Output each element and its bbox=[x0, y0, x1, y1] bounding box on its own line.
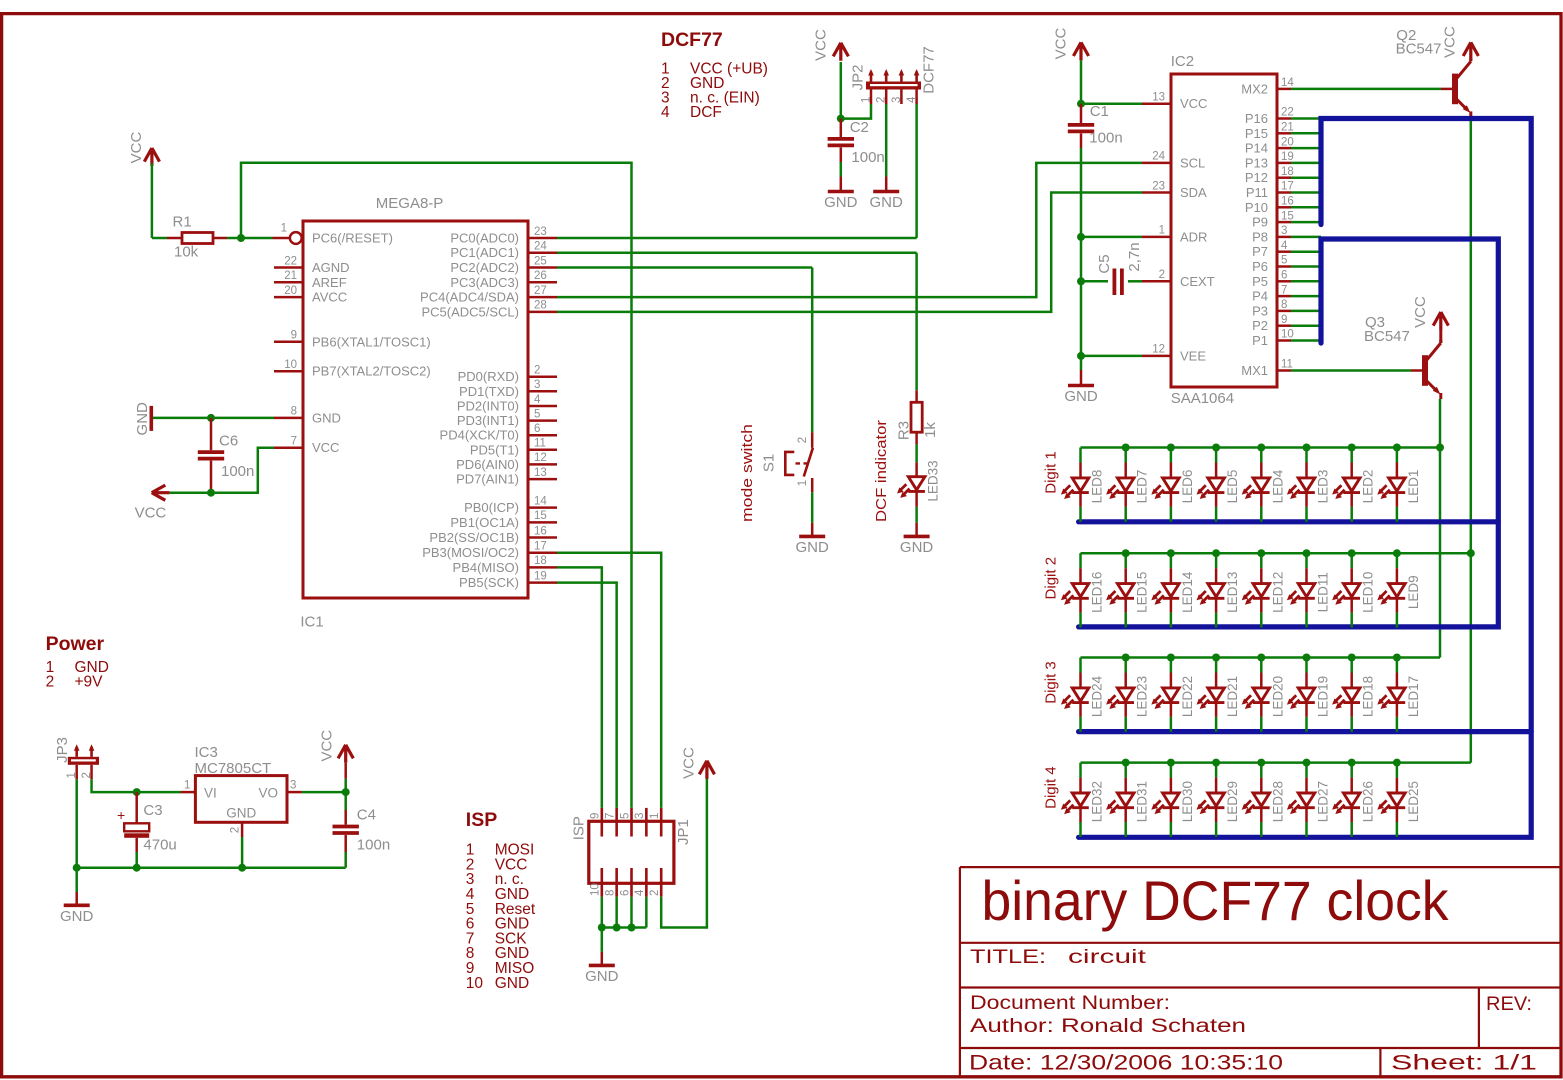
svg-text:LED6: LED6 bbox=[1180, 470, 1195, 504]
IC1 pin 2 (PD0(RXD)) bbox=[528, 375, 557, 378]
svg-text:2: 2 bbox=[649, 890, 661, 896]
LED LED3 bbox=[1287, 448, 1331, 522]
LED LED29 bbox=[1197, 763, 1241, 837]
svg-text:Sheet: 1/1: Sheet: 1/1 bbox=[1391, 1052, 1537, 1075]
svg-text:8: 8 bbox=[1281, 299, 1287, 311]
wire to IC2 pin13 VCC bbox=[1081, 102, 1142, 105]
svg-text:VCC: VCC bbox=[1180, 96, 1207, 111]
junction C6 top bbox=[207, 414, 215, 422]
svg-text:+9V: +9V bbox=[75, 674, 104, 691]
svg-text:CEXT: CEXT bbox=[1180, 274, 1215, 289]
svg-text:20: 20 bbox=[1281, 136, 1294, 148]
IC2 pin 23 (SDA) bbox=[1142, 191, 1171, 194]
svg-text:GND: GND bbox=[134, 402, 151, 436]
svg-text:LED21: LED21 bbox=[1225, 676, 1240, 717]
VCC power symbol at JP1 bbox=[699, 761, 714, 779]
svg-text:AVCC: AVCC bbox=[312, 290, 347, 305]
svg-text:P12: P12 bbox=[1245, 170, 1268, 185]
svg-text:LED14: LED14 bbox=[1180, 571, 1195, 613]
svg-text:25: 25 bbox=[534, 255, 547, 267]
LED LED21 bbox=[1197, 658, 1241, 732]
svg-text:C4: C4 bbox=[357, 807, 376, 824]
IC2 pin 12 (VEE) bbox=[1142, 355, 1171, 358]
IC2 pin 8 (P3) bbox=[1277, 310, 1291, 313]
svg-text:10: 10 bbox=[466, 975, 484, 992]
svg-text:LED29: LED29 bbox=[1225, 781, 1240, 822]
svg-text:ADR: ADR bbox=[1180, 229, 1207, 244]
wire P4 to bus bbox=[1291, 295, 1321, 298]
svg-text:100n: 100n bbox=[1089, 130, 1122, 147]
svg-text:LED5: LED5 bbox=[1225, 470, 1240, 504]
svg-text:P6: P6 bbox=[1252, 259, 1268, 274]
svg-text:mode switch: mode switch bbox=[739, 424, 756, 522]
junction LED15 anode bbox=[1122, 549, 1130, 557]
junction LED25 anode bbox=[1393, 759, 1401, 767]
IC1 pin 5 (PD3(INT1)) bbox=[528, 419, 557, 422]
svg-text:4: 4 bbox=[661, 104, 670, 121]
svg-text:17: 17 bbox=[1281, 181, 1294, 193]
svg-text:21: 21 bbox=[284, 270, 297, 282]
svg-text:19: 19 bbox=[534, 570, 547, 582]
svg-text:12: 12 bbox=[534, 452, 547, 464]
wire PC5 to IC2 SDA bbox=[557, 193, 1142, 312]
wire VCC down to IC2 VCC bbox=[1080, 60, 1083, 103]
LED LED30 bbox=[1151, 763, 1195, 837]
svg-text:VI: VI bbox=[204, 786, 217, 801]
svg-text:LED18: LED18 bbox=[1361, 676, 1376, 717]
svg-text:2: 2 bbox=[81, 772, 93, 778]
junction rail pin8 bbox=[613, 924, 621, 932]
svg-text:2: 2 bbox=[797, 437, 809, 443]
svg-text:PC0(ADC0): PC0(ADC0) bbox=[450, 231, 519, 246]
wire GND to pin8 bbox=[153, 417, 274, 420]
svg-text:P2: P2 bbox=[1252, 318, 1268, 333]
switch S1 (mode switch) bbox=[761, 432, 813, 492]
wire down to S1 bbox=[811, 268, 814, 433]
svg-text:LED24: LED24 bbox=[1090, 675, 1105, 717]
svg-text:ISP: ISP bbox=[466, 809, 497, 831]
svg-text:PC2(ADC2): PC2(ADC2) bbox=[450, 260, 519, 275]
svg-text:17: 17 bbox=[534, 541, 547, 553]
svg-text:GND: GND bbox=[495, 975, 529, 992]
wire P2 to bus bbox=[1291, 324, 1321, 327]
svg-text:GND: GND bbox=[312, 410, 341, 425]
wire VCC to R1 bbox=[151, 163, 154, 238]
wire to VEE bbox=[1081, 355, 1142, 358]
svg-text:VCC: VCC bbox=[681, 747, 698, 779]
svg-text:C2: C2 bbox=[850, 119, 869, 136]
svg-text:VCC: VCC bbox=[1412, 296, 1429, 328]
bus from P16-P9 to digit2/digit4 cathodes bbox=[1079, 119, 1532, 838]
transistor Q2 BC547 bbox=[1441, 58, 1471, 118]
svg-text:1: 1 bbox=[797, 480, 809, 486]
svg-text:LED4: LED4 bbox=[1270, 469, 1285, 503]
LED LED16 bbox=[1061, 553, 1105, 627]
junction LED2 anode bbox=[1348, 444, 1356, 452]
wire JP1 pin8 to rail bbox=[615, 897, 618, 928]
svg-text:DCF77: DCF77 bbox=[921, 46, 938, 94]
wire to ADR bbox=[1081, 236, 1142, 239]
LED LED28 bbox=[1242, 763, 1286, 837]
svg-text:JP2: JP2 bbox=[850, 65, 867, 91]
svg-text:JP3: JP3 bbox=[54, 737, 71, 763]
svg-text:PD4(XCK/T0): PD4(XCK/T0) bbox=[440, 428, 519, 443]
LED LED22 bbox=[1151, 658, 1195, 732]
junction LED30 anode bbox=[1167, 759, 1175, 767]
junction LED5 anode bbox=[1212, 444, 1220, 452]
LED LED2 bbox=[1332, 448, 1376, 522]
svg-text:24: 24 bbox=[534, 241, 547, 253]
bus from P8-P1 to digit1/digit2 cathodes bbox=[1079, 239, 1499, 627]
svg-text:PD2(INT0): PD2(INT0) bbox=[457, 399, 519, 414]
wire rail to GND bbox=[601, 928, 604, 952]
svg-text:1: 1 bbox=[1159, 225, 1165, 237]
wire P6 to bus bbox=[1291, 265, 1321, 268]
svg-text:7: 7 bbox=[604, 813, 616, 819]
svg-text:5: 5 bbox=[619, 813, 631, 819]
IC2 pin 7 (P4) bbox=[1277, 295, 1291, 298]
JP2 pin 2 bbox=[885, 72, 888, 82]
svg-text:4: 4 bbox=[906, 96, 918, 103]
svg-text:GND: GND bbox=[1064, 388, 1098, 405]
wire P13 to bus bbox=[1291, 162, 1321, 165]
IC1 pin 17 (PB3(MOSI/OC2)) bbox=[528, 551, 557, 554]
svg-text:1: 1 bbox=[649, 813, 661, 819]
svg-text:16: 16 bbox=[1281, 196, 1294, 208]
wire P8 to bus bbox=[1291, 236, 1321, 239]
svg-text:5: 5 bbox=[534, 408, 540, 420]
svg-text:10: 10 bbox=[590, 883, 602, 896]
junction LED18 anode bbox=[1348, 654, 1356, 662]
svg-text:2: 2 bbox=[230, 827, 242, 833]
svg-text:SDA: SDA bbox=[1180, 185, 1207, 200]
svg-text:PD1(TXD): PD1(TXD) bbox=[459, 384, 519, 399]
svg-text:LED2: LED2 bbox=[1361, 470, 1376, 504]
IC1 pin 10 (PB7(XTAL2/TOSC2)) bbox=[274, 370, 303, 373]
junction C6 bottom bbox=[207, 489, 215, 497]
JP1 pin 9 bbox=[600, 808, 603, 837]
svg-text:15: 15 bbox=[534, 510, 547, 522]
svg-text:AGND: AGND bbox=[312, 260, 350, 275]
svg-text:AREF: AREF bbox=[312, 275, 347, 290]
svg-text:C1: C1 bbox=[1090, 103, 1109, 120]
junction IC3 GND bbox=[238, 864, 246, 872]
svg-text:3: 3 bbox=[290, 780, 296, 792]
svg-text:LED33: LED33 bbox=[926, 460, 941, 501]
VCC power symbol arrow left bbox=[152, 485, 170, 500]
junction C3 bottom bbox=[133, 864, 141, 872]
connector JP3 (power input) bbox=[54, 737, 99, 779]
wire Digit 2 anode rail bbox=[1081, 552, 1471, 555]
svg-text:18: 18 bbox=[534, 555, 547, 567]
wire C5 to CEXT bbox=[1128, 280, 1142, 283]
svg-text:P15: P15 bbox=[1245, 126, 1268, 141]
wire to C5 bbox=[1081, 280, 1108, 283]
IC1 pin 7 (VCC) bbox=[274, 446, 303, 449]
svg-text:23: 23 bbox=[534, 226, 547, 238]
svg-text:LED20: LED20 bbox=[1270, 676, 1285, 717]
IC2 pin 14 (MX2) bbox=[1277, 88, 1291, 91]
svg-text:LED12: LED12 bbox=[1270, 572, 1285, 613]
svg-text:LED8: LED8 bbox=[1090, 470, 1105, 504]
LED LED33 (DCF indicator) bbox=[897, 460, 941, 507]
svg-text:P16: P16 bbox=[1245, 111, 1268, 126]
wire power GND rail bbox=[77, 866, 346, 869]
svg-text:10: 10 bbox=[284, 359, 297, 371]
svg-text:2: 2 bbox=[876, 97, 888, 103]
IC2 pin 9 (P2) bbox=[1277, 324, 1291, 327]
IC1 pin 8 (GND) bbox=[274, 417, 303, 420]
title block bbox=[960, 867, 1561, 1077]
LED LED19 bbox=[1287, 658, 1331, 732]
LED LED11 bbox=[1287, 553, 1331, 627]
LED LED23 bbox=[1106, 658, 1150, 732]
svg-text:1k: 1k bbox=[922, 422, 939, 438]
wire JP2 pin2 to GND bbox=[885, 104, 888, 177]
wire PC2 to S1 bbox=[557, 266, 812, 269]
svg-text:Date: 12/30/2006 10:35:10: Date: 12/30/2006 10:35:10 bbox=[969, 1052, 1283, 1075]
LED LED9 bbox=[1377, 553, 1421, 627]
JP1 pin 10 bbox=[600, 868, 603, 897]
svg-text:PB1(OC1A): PB1(OC1A) bbox=[450, 515, 519, 530]
svg-text:22: 22 bbox=[284, 255, 297, 267]
wire JP1 pin4 to rail bbox=[645, 897, 648, 928]
capacitor C3 470u electrolytic bbox=[117, 792, 177, 854]
connector JP1 (ISP header) bbox=[571, 808, 693, 897]
svg-text:PB5(SCK): PB5(SCK) bbox=[459, 575, 519, 590]
svg-text:6: 6 bbox=[534, 423, 540, 435]
svg-text:GND: GND bbox=[900, 539, 934, 556]
svg-text:DCF77: DCF77 bbox=[661, 29, 723, 51]
svg-text:LED10: LED10 bbox=[1361, 572, 1376, 613]
svg-text:JP1: JP1 bbox=[675, 819, 692, 845]
junction LED1 anode bbox=[1393, 444, 1401, 452]
svg-text:SCL: SCL bbox=[1180, 155, 1205, 170]
svg-text:PD7(AIN1): PD7(AIN1) bbox=[456, 472, 519, 487]
svg-text:PB0(ICP): PB0(ICP) bbox=[464, 500, 519, 515]
junction LED28 anode bbox=[1257, 759, 1265, 767]
svg-text:C5: C5 bbox=[1096, 254, 1113, 273]
svg-text:PC4(ADC4/SDA): PC4(ADC4/SDA) bbox=[420, 290, 519, 305]
svg-text:SAA1064: SAA1064 bbox=[1171, 390, 1234, 407]
svg-text:PB7(XTAL2/TOSC2): PB7(XTAL2/TOSC2) bbox=[312, 364, 431, 379]
svg-text:Digit 1: Digit 1 bbox=[1043, 451, 1060, 494]
junction LED21 anode bbox=[1212, 654, 1220, 662]
IC2 pin 18 (P12) bbox=[1277, 176, 1291, 179]
wire P9 to bus bbox=[1291, 221, 1321, 224]
IC1 pin 26 (PC3(ADC3)) bbox=[528, 281, 557, 284]
svg-text:VCC: VCC bbox=[813, 29, 830, 61]
IC3 pin 3 VO bbox=[287, 791, 302, 794]
IC2 pin 20 (P14) bbox=[1277, 147, 1291, 150]
svg-text:10: 10 bbox=[1281, 329, 1294, 341]
svg-text:10k: 10k bbox=[174, 244, 199, 261]
ground symbol GND below S1 bbox=[799, 535, 825, 539]
svg-text:LED32: LED32 bbox=[1090, 781, 1105, 822]
IC1 pin 14 (PB0(ICP)) bbox=[528, 506, 557, 509]
LED LED24 bbox=[1061, 658, 1105, 732]
IC2 pin 17 (P11) bbox=[1277, 191, 1291, 194]
svg-text:100n: 100n bbox=[357, 837, 390, 854]
wire P10 to bus bbox=[1291, 206, 1321, 209]
VCC power symbol at IC3 bbox=[338, 745, 353, 763]
wire MX1 to Q3 base bbox=[1291, 369, 1411, 372]
junction LED7 anode bbox=[1122, 444, 1130, 452]
svg-text:11: 11 bbox=[534, 438, 546, 450]
VCC power symbol above C1 bbox=[1073, 42, 1088, 60]
svg-text:IC3: IC3 bbox=[195, 744, 218, 761]
junction LED20 anode bbox=[1257, 654, 1265, 662]
svg-text:9: 9 bbox=[590, 813, 602, 819]
svg-text:LED25: LED25 bbox=[1406, 781, 1421, 822]
wire GND rail bbox=[602, 926, 647, 929]
svg-text:Digit 4: Digit 4 bbox=[1043, 766, 1060, 809]
junction C1 top bbox=[1077, 100, 1085, 108]
capacitor C6 100n bbox=[198, 418, 255, 493]
svg-text:BC547: BC547 bbox=[1364, 328, 1410, 345]
svg-text:19: 19 bbox=[1281, 151, 1294, 163]
svg-text:26: 26 bbox=[534, 270, 547, 282]
svg-text:LED16: LED16 bbox=[1090, 572, 1105, 613]
svg-text:R3: R3 bbox=[896, 421, 913, 440]
svg-text:Author: Ronald Schaten: Author: Ronald Schaten bbox=[970, 1016, 1246, 1037]
svg-text:VCC: VCC bbox=[1053, 27, 1070, 59]
svg-text:VCC: VCC bbox=[128, 131, 145, 163]
IC1 pin 28 (PC5(ADC5/SCL)) bbox=[528, 311, 557, 314]
resistor R1 10k bbox=[167, 214, 227, 261]
JP2 pin 3 bbox=[900, 72, 903, 82]
wire PB3 MOSI to JP1 pin1 bbox=[557, 553, 661, 808]
svg-text:PC5(ADC5/SCL): PC5(ADC5/SCL) bbox=[421, 304, 519, 319]
IC1 pin 18 (PB4(MISO)) bbox=[528, 566, 557, 569]
IC1 pin 16 (PB2(SS/OC1B)) bbox=[528, 536, 557, 539]
LED LED20 bbox=[1242, 658, 1286, 732]
wire P14 to bus bbox=[1291, 147, 1321, 150]
svg-text:9: 9 bbox=[291, 330, 297, 342]
junction LED11 anode bbox=[1303, 549, 1311, 557]
svg-text:GND: GND bbox=[796, 539, 830, 556]
svg-text:GND: GND bbox=[226, 806, 256, 821]
JP1 pin 4 bbox=[645, 868, 648, 897]
svg-text:+: + bbox=[117, 807, 125, 823]
junction LED13 anode bbox=[1212, 549, 1220, 557]
LED LED26 bbox=[1332, 763, 1376, 837]
svg-text:LED7: LED7 bbox=[1135, 470, 1150, 504]
capacitor C4 100n bbox=[333, 792, 391, 854]
svg-text:GND: GND bbox=[60, 908, 94, 925]
IC1 pin 12 (PD6(AIN0)) bbox=[528, 463, 557, 466]
wire PC4 to IC2 SCL bbox=[557, 163, 1142, 297]
wire LED33 to GND bbox=[915, 507, 918, 523]
svg-text:3: 3 bbox=[1281, 225, 1287, 237]
junction LED19 anode bbox=[1303, 654, 1311, 662]
svg-text:P4: P4 bbox=[1252, 289, 1268, 304]
bus digit1 cathodes bbox=[1079, 519, 1499, 524]
svg-text:15: 15 bbox=[1281, 210, 1294, 222]
wire IC3 pin2 to rail bbox=[241, 837, 244, 868]
svg-text:circuit: circuit bbox=[1068, 947, 1147, 968]
LED LED5 bbox=[1197, 448, 1241, 522]
svg-text:DCF: DCF bbox=[690, 104, 722, 121]
svg-text:8: 8 bbox=[291, 406, 297, 418]
IC3 pin 1 VI bbox=[181, 791, 196, 794]
svg-text:2: 2 bbox=[1159, 269, 1165, 281]
IC1 pin 4 (PD2(INT0)) bbox=[528, 405, 557, 408]
JP3 pin 1 bbox=[75, 747, 78, 757]
svg-text:Digit 2: Digit 2 bbox=[1043, 557, 1060, 600]
IC2 pin 24 (SCL) bbox=[1142, 162, 1171, 165]
wire C3 to rail bbox=[135, 852, 138, 868]
connector JP2 (DCF77 header) bbox=[850, 46, 938, 104]
svg-text:2: 2 bbox=[46, 674, 55, 691]
svg-text:100n: 100n bbox=[221, 463, 254, 480]
svg-text:Power: Power bbox=[46, 633, 105, 655]
VCC power symbol top-left bbox=[144, 148, 159, 166]
junction digit1 anode / Q3 emitter bbox=[1436, 444, 1444, 452]
svg-text:LED15: LED15 bbox=[1135, 572, 1150, 613]
ground symbol GND below C2 bbox=[828, 190, 854, 194]
ground symbol GND below LED33 bbox=[904, 535, 930, 539]
svg-text:VEE: VEE bbox=[1180, 348, 1206, 363]
wire R1 to PC6 bbox=[227, 237, 273, 240]
svg-text:LED28: LED28 bbox=[1270, 781, 1285, 822]
wire R3 to LED33 bbox=[915, 444, 918, 462]
IC3 pin 2 GND bbox=[241, 822, 244, 837]
transistor Q3 BC547 bbox=[1411, 340, 1441, 400]
svg-text:PB2(SS/OC1B): PB2(SS/OC1B) bbox=[429, 530, 519, 545]
svg-text:7: 7 bbox=[1281, 284, 1287, 296]
svg-text:P9: P9 bbox=[1252, 215, 1268, 230]
junction CEXT bbox=[1077, 277, 1085, 285]
wire VO to C4 bbox=[302, 791, 346, 794]
svg-text:13: 13 bbox=[534, 467, 547, 479]
wire PB4 MISO to JP1 pin9 bbox=[557, 567, 602, 808]
wire S1 to GND bbox=[811, 492, 814, 523]
junction LED9 anode bbox=[1393, 549, 1401, 557]
junction C3 top bbox=[133, 788, 141, 796]
svg-text:IC1: IC1 bbox=[300, 614, 323, 631]
junction VEE bbox=[1077, 352, 1085, 360]
svg-text:PD5(T1): PD5(T1) bbox=[470, 442, 519, 457]
junction LED29 anode bbox=[1212, 759, 1220, 767]
IC1 pin 27 (PC4(ADC4/SDA)) bbox=[528, 296, 557, 299]
svg-text:LED9: LED9 bbox=[1406, 575, 1421, 609]
IC1 pin 6 (PD4(XCK/T0)) bbox=[528, 434, 557, 437]
wire P12 to bus bbox=[1291, 176, 1321, 179]
svg-text:3: 3 bbox=[891, 97, 903, 103]
wire MX2 to Q2 base bbox=[1291, 88, 1441, 91]
JP2 pin 4 bbox=[915, 72, 918, 82]
svg-text:P11: P11 bbox=[1246, 185, 1268, 200]
svg-text:24: 24 bbox=[1152, 151, 1165, 163]
LED LED13 bbox=[1197, 553, 1241, 627]
junction rail pin10 bbox=[598, 924, 606, 932]
wire C1 to GND rail bbox=[1080, 148, 1083, 370]
svg-text:6: 6 bbox=[1281, 270, 1287, 282]
IC1 pin 19 (PB5(SCK)) bbox=[528, 581, 557, 584]
svg-text:28: 28 bbox=[534, 300, 547, 312]
svg-text:21: 21 bbox=[1281, 122, 1294, 134]
LED LED32 bbox=[1061, 763, 1105, 837]
junction LED14 anode bbox=[1167, 549, 1175, 557]
wire JP2 pin1 to VCC/C2 bbox=[841, 104, 871, 119]
svg-text:VCC: VCC bbox=[312, 440, 339, 455]
wire JP3 pin2 to C3/IC3 bbox=[92, 779, 181, 792]
LED LED17 bbox=[1377, 658, 1421, 732]
IC2 pin 6 (P5) bbox=[1277, 280, 1291, 283]
svg-text:27: 27 bbox=[534, 285, 547, 297]
junction GND rail bbox=[73, 864, 81, 872]
